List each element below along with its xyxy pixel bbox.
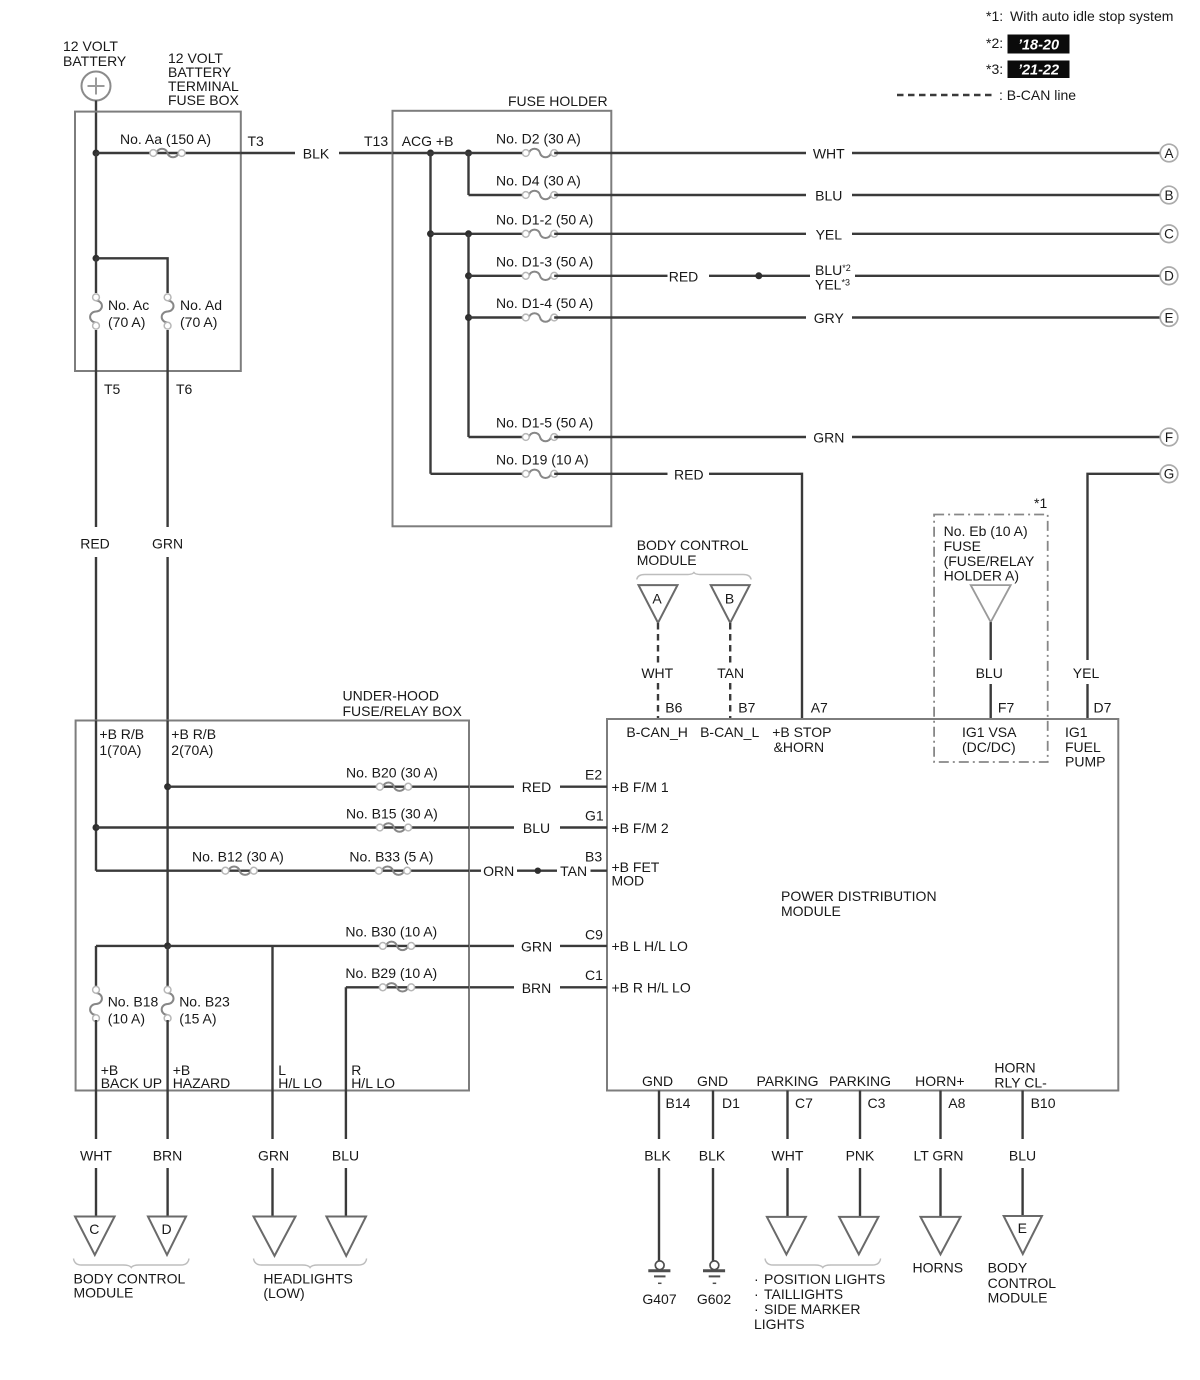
svg-text:PARKING: PARKING [757, 1073, 819, 1089]
wire fuse Ad to T6 [166, 330, 168, 371]
wire B18 to box edge [95, 1020, 97, 1091]
label BLU +B F/M 2 [523, 820, 550, 836]
wire D1-4 to GRY [554, 316, 1160, 318]
wire D1-5 to GRN [554, 436, 1160, 438]
svg-text:No. D1-5 (50 A): No. D1-5 (50 A) [496, 415, 593, 431]
label GRY circuit E [814, 310, 845, 326]
svg-text:D: D [161, 1221, 171, 1237]
svg-text:A: A [1164, 146, 1173, 161]
svg-text:+B F/M 1: +B F/M 1 [612, 779, 669, 795]
svg-text:No. B23: No. B23 [179, 994, 230, 1010]
label G602 [697, 1291, 731, 1307]
svg-text:E: E [1018, 1220, 1027, 1236]
power distribution module outline [607, 719, 1118, 1091]
svg-text:YEL: YEL [816, 227, 843, 243]
label +B FET MOD [612, 859, 660, 889]
svg-text:With auto idle stop system: With auto idle stop system [1010, 8, 1173, 24]
label GRN circuit F [813, 430, 844, 446]
label No. B30 (10 A) [345, 923, 437, 939]
wire R headlight [345, 1091, 347, 1217]
label B-CAN_L pin [700, 724, 759, 740]
label BLU IG1 VSA [976, 665, 1003, 681]
brace under parking [765, 1259, 881, 1268]
wire connector G to D7 [1088, 474, 1161, 719]
label +B F/M 1 [612, 779, 669, 795]
label ORN fet mod [483, 863, 514, 879]
svg-text:RED: RED [674, 467, 704, 483]
fuse B33 5A [375, 866, 410, 874]
label BRN hazard [153, 1147, 183, 1163]
svg-text:POSITION LIGHTS: POSITION LIGHTS [764, 1271, 885, 1287]
svg-text:RED: RED [669, 269, 699, 285]
label No. D1-3 (50 A) [496, 253, 593, 269]
wire D1 bus vertical C [467, 234, 469, 437]
svg-text:BATTERY: BATTERY [63, 53, 127, 69]
svg-text:SIDE MARKER: SIDE MARKER [764, 1301, 860, 1317]
svg-text:MODULE: MODULE [781, 903, 841, 919]
label No. D19 (10 A) [496, 451, 589, 467]
node ACG bus junction 1 [427, 150, 434, 157]
wire fuse Aa row [96, 152, 241, 154]
wire B20 to E2 pin [469, 786, 607, 788]
terminal T13 label [364, 133, 388, 149]
svg-text:+B R/B: +B R/B [99, 726, 144, 742]
wire hazard to D [166, 1091, 168, 1217]
svg-text:GND: GND [642, 1073, 673, 1089]
svg-text:No. D4 (30 A): No. D4 (30 A) [496, 173, 581, 189]
pin C3 label [868, 1095, 886, 1111]
wire L headlight drop [271, 946, 273, 1091]
label B-CAN_H pin [626, 724, 687, 740]
svg-text:B14: B14 [666, 1095, 691, 1111]
wire B29 to C1 pin [469, 986, 607, 988]
svg-text:No. Ac: No. Ac [108, 297, 149, 313]
wire RED to A7 [709, 474, 802, 719]
svg-text:No. D19 (10 A): No. D19 (10 A) [496, 451, 589, 467]
legend B-CAN line sample [897, 87, 1076, 103]
pin B14 label [666, 1095, 691, 1111]
node B15 junction [93, 824, 100, 831]
label No. D1-2 (50 A) [496, 211, 593, 227]
wire D1-2 branch [431, 233, 523, 235]
wire D1-5 branch [469, 436, 523, 438]
svg-text:HORN: HORN [994, 1060, 1035, 1076]
label R H/L LO [351, 1062, 395, 1091]
terminal T3 label [248, 133, 265, 149]
svg-text:TAILLIGHTS: TAILLIGHTS [764, 1286, 843, 1302]
svg-text:·: · [754, 1286, 759, 1302]
wire B15 to G1 pin [469, 826, 607, 828]
svg-text:BODY CONTROL: BODY CONTROL [637, 537, 749, 553]
node splice circuit D [755, 272, 762, 279]
svg-text:A8: A8 [948, 1095, 965, 1111]
label WHT parking [772, 1147, 804, 1163]
svg-text:(LOW): (LOW) [263, 1285, 304, 1301]
svg-text:PUMP: PUMP [1065, 754, 1105, 770]
svg-text:*1:: *1: [986, 8, 1003, 24]
svg-text:YEL: YEL [1073, 665, 1100, 681]
svg-text:No. Ad: No. Ad [180, 297, 222, 313]
svg-text:BLK: BLK [644, 1147, 671, 1163]
label HORN RLY CL- pin B10 [994, 1060, 1047, 1091]
svg-text:BLU: BLU [1009, 1147, 1036, 1163]
pin G1 label [585, 807, 604, 823]
brace under headlights [254, 1259, 367, 1268]
svg-text:WHT: WHT [813, 146, 845, 162]
svg-text:GND: GND [697, 1073, 728, 1089]
fuse D1-2 50A [522, 230, 557, 238]
label TAN fet mod [560, 863, 587, 879]
fuse D2 30A [522, 149, 557, 157]
wire ACG bus vertical B [467, 153, 469, 195]
wire back up to C [95, 1091, 97, 1217]
node D1-4 branch junction [465, 314, 472, 321]
svg-text:B-CAN_H: B-CAN_H [626, 724, 687, 740]
svg-text:F7: F7 [998, 700, 1015, 716]
pin A7 label [811, 700, 828, 716]
wire GND B14 [658, 1091, 660, 1262]
wire B15 row [96, 826, 469, 828]
node ACG bus junction 2 [465, 150, 472, 157]
ground symbol G407 [648, 1261, 670, 1283]
svg-text:BLK: BLK [699, 1147, 726, 1163]
svg-text:TAN: TAN [560, 863, 587, 879]
wire battery to fuse Ac [95, 258, 97, 293]
label WHT back up [80, 1147, 112, 1163]
svg-text:T5: T5 [104, 381, 121, 397]
label L H/L LO [278, 1062, 322, 1091]
wire D1-3 branch [469, 275, 523, 277]
svg-text:IG1: IG1 [1065, 724, 1088, 740]
svg-text:: B-CAN line: : B-CAN line [999, 87, 1076, 103]
label No. D1-4 (50 A) [496, 295, 593, 311]
label PARKING pin C7 [757, 1073, 819, 1089]
svg-text:HAZARD: HAZARD [173, 1075, 231, 1091]
connector G [1160, 465, 1178, 483]
svg-text:+B R/B: +B R/B [171, 726, 216, 742]
pin B10 label [1031, 1095, 1056, 1111]
wire B18 feed [96, 945, 168, 947]
label BLU R headlight [332, 1147, 359, 1163]
wire B33 to B3 pin [469, 870, 607, 872]
fuse B30 10A [379, 942, 414, 950]
pin C7 label [795, 1095, 813, 1111]
connector B [1160, 186, 1178, 204]
svg-text:No. D1-3 (50 A): No. D1-3 (50 A) [496, 253, 593, 269]
node D1-3 branch junction [465, 272, 472, 279]
label No. D2 (30 A) [496, 131, 581, 147]
fuse B18 10A [90, 986, 102, 1021]
label HORN+ pin A8 [915, 1073, 964, 1089]
legend note *1 with auto idle stop system [986, 8, 1173, 24]
svg-text:B: B [1164, 188, 1173, 203]
wire fuse Ac to T5 [95, 330, 97, 371]
svg-text:T6: T6 [176, 381, 193, 397]
svg-text:*3:: *3: [986, 61, 1003, 77]
svg-text:RLY CL-: RLY CL- [994, 1075, 1047, 1091]
label No. Aa (150 A) [120, 131, 211, 147]
svg-text:+B F/M 2: +B F/M 2 [612, 820, 669, 836]
connector triangle L headlight [254, 1217, 296, 1256]
svg-text:PNK: PNK [846, 1147, 875, 1163]
label TAN B-CAN_L [717, 665, 744, 681]
wire B30 to C9 pin [469, 945, 607, 947]
label No. B23 (15 A) [179, 994, 230, 1027]
svg-text:E: E [1164, 310, 1173, 325]
svg-text:MODULE: MODULE [988, 1290, 1048, 1306]
label No. B15 (30 A) [346, 806, 438, 822]
label YEL circuit C [816, 227, 843, 243]
battery positive terminal symbol [82, 72, 111, 101]
pin C9 label [585, 927, 603, 943]
svg-text:YEL*3: YEL*3 [815, 276, 850, 292]
fuse B15 30A [376, 823, 411, 831]
connector E [1160, 309, 1178, 327]
svg-text:·: · [754, 1301, 759, 1317]
svg-text:A: A [652, 591, 662, 607]
svg-text:BLU: BLU [332, 1147, 359, 1163]
label GRN left feed [152, 536, 183, 552]
svg-text:C3: C3 [868, 1095, 886, 1111]
svg-text:D1: D1 [722, 1095, 740, 1111]
svg-text:ACG +B: ACG +B [402, 133, 454, 149]
pin E2 label [585, 767, 602, 783]
connector F [1160, 428, 1178, 446]
node Ac Ad branch junction [93, 255, 100, 262]
svg-text:FUSE/RELAY BOX: FUSE/RELAY BOX [343, 703, 463, 719]
pin F7 label [998, 700, 1015, 716]
svg-text:LIGHTS: LIGHTS [754, 1316, 805, 1332]
ground symbol G602 [703, 1261, 725, 1283]
svg-text:(70 A): (70 A) [108, 314, 145, 330]
connector triangle R headlight [326, 1217, 366, 1256]
wire D1-3 to RED [554, 275, 667, 277]
terminal T5 label [104, 381, 121, 397]
label RED +B F/M 1 [522, 779, 552, 795]
svg-text:BRN: BRN [522, 980, 552, 996]
label BLU horn relay [1009, 1147, 1036, 1163]
label +B F/M 2 [612, 820, 669, 836]
svg-text:WHT: WHT [772, 1147, 804, 1163]
connector triangle D [148, 1217, 186, 1255]
svg-text:BLU: BLU [976, 665, 1003, 681]
node D1-2 row junction A [427, 230, 434, 237]
svg-text:·: · [754, 1271, 759, 1287]
connector triangle A BCM [639, 585, 678, 623]
svg-text:G1: G1 [585, 807, 604, 823]
svg-text:GRN: GRN [152, 536, 183, 552]
connector triangle C [75, 1217, 115, 1255]
svg-text:C7: C7 [795, 1095, 813, 1111]
svg-text:C: C [1164, 227, 1174, 242]
svg-text:GRN: GRN [258, 1147, 289, 1163]
svg-text:RED: RED [80, 536, 110, 552]
svg-text:*2:: *2: [986, 35, 1003, 51]
pin D7 label [1094, 700, 1112, 716]
label BLK battery feed [303, 146, 330, 162]
connector triangle parking 1 [767, 1217, 806, 1255]
svg-text:No. D1-4 (50 A): No. D1-4 (50 A) [496, 295, 593, 311]
svg-text:’18-20: ’18-20 [1018, 38, 1059, 54]
svg-text:LT GRN: LT GRN [913, 1147, 963, 1163]
connector D [1160, 267, 1178, 285]
fuse B23 15A [162, 986, 174, 1021]
label BLK ground 1 [644, 1147, 671, 1163]
svg-text:G602: G602 [697, 1291, 731, 1307]
wire B30 row [168, 945, 469, 947]
svg-text:ORN: ORN [483, 863, 514, 879]
label YEL fuel pump [1073, 665, 1100, 681]
wire D1-2 to YEL [554, 233, 1160, 235]
wire BLU to F7 pin [990, 684, 992, 719]
svg-text:PARKING: PARKING [829, 1073, 891, 1089]
label No. B18 (10 A) [108, 994, 159, 1027]
svg-text:No. B18: No. B18 [108, 994, 159, 1010]
label 12 VOLT BATTERY [63, 38, 127, 69]
terminal T6 label [176, 381, 193, 397]
svg-text:BACK UP: BACK UP [101, 1075, 162, 1091]
label +B R/B 1(70A) [99, 726, 144, 758]
under-hood fuse relay box outline [76, 721, 469, 1091]
svg-text:FUSE BOX: FUSE BOX [168, 92, 239, 108]
svg-text:T3: T3 [248, 133, 265, 149]
svg-text:D7: D7 [1094, 700, 1112, 716]
svg-text:MODULE: MODULE [74, 1285, 134, 1301]
svg-text:No. B15 (30 A): No. B15 (30 A) [346, 806, 438, 822]
node D1-2 row junction B [465, 230, 472, 237]
svg-text:H/L LO: H/L LO [351, 1075, 395, 1091]
label No. Eb (10 A) FUSE (FUSE/RELAY HOLDER A) [944, 523, 1035, 584]
svg-text:RED: RED [522, 779, 552, 795]
legend note *3 years 21-22 [986, 61, 1070, 79]
label BRN headlight R [522, 980, 552, 996]
svg-text:WHT: WHT [80, 1147, 112, 1163]
connector triangle B BCM [711, 585, 750, 623]
pin A8 label [948, 1095, 965, 1111]
label G407 [642, 1291, 676, 1307]
svg-text:No. B33 (5 A): No. B33 (5 A) [349, 849, 433, 865]
label No. B29 (10 A) [345, 965, 437, 981]
node splice ORN TAN [535, 868, 541, 874]
label +B STOP &HORN pin [772, 724, 831, 755]
svg-text:No. Eb (10 A): No. Eb (10 A) [944, 523, 1028, 539]
svg-text:C9: C9 [585, 927, 603, 943]
wire branch to fuse Ad [96, 258, 168, 293]
wire horn relay B10 [1021, 1091, 1023, 1217]
legend note *2 years 18-20 [986, 35, 1070, 54]
label HORNS [913, 1260, 964, 1276]
battery terminal fuse box outline [75, 112, 241, 371]
label *1 marker [1034, 495, 1047, 511]
fuse Ad 70A [162, 294, 174, 329]
wire B23 to box edge [166, 1020, 168, 1091]
svg-text:GRN: GRN [813, 430, 844, 446]
wire D4 to BLU [554, 194, 1160, 196]
svg-text:T13: T13 [364, 133, 388, 149]
fuse D1-4 50A [522, 313, 557, 321]
label FUSE HOLDER [508, 93, 608, 109]
svg-text:HORN+: HORN+ [915, 1073, 964, 1089]
wire T6 down GRN [166, 371, 168, 721]
wire B12 B33 row [96, 870, 469, 872]
brace under BCM bottom [74, 1259, 190, 1268]
fuse B12 30A [222, 866, 257, 874]
label No. Ad (70 A) [180, 297, 222, 330]
svg-text:HOLDER A): HOLDER A) [944, 568, 1019, 584]
label WHT B-CAN_H [641, 665, 673, 681]
svg-text:E2: E2 [585, 767, 602, 783]
label No. D1-5 (50 A) [496, 415, 593, 431]
svg-text:FUSE HOLDER: FUSE HOLDER [508, 93, 608, 109]
wire battery bus down [95, 153, 97, 258]
fuse D1-3 50A [522, 272, 557, 280]
fuse D1-5 50A [522, 433, 557, 441]
svg-text:No. B29 (10 A): No. B29 (10 A) [345, 965, 437, 981]
label RED stop horn feed [674, 467, 704, 483]
svg-text:1(70A): 1(70A) [99, 742, 141, 758]
label +B BACK UP [101, 1062, 162, 1091]
wire parking C3 [859, 1091, 861, 1217]
label PNK parking [846, 1147, 875, 1163]
node battery junction at fuse Aa [93, 150, 100, 157]
auto idle stop dash-dot box [934, 515, 1048, 763]
svg-text:WHT: WHT [641, 665, 673, 681]
wire T5 down RED [95, 371, 97, 721]
wire to fuse B18 [95, 946, 97, 988]
label GND pin D1 [697, 1073, 728, 1089]
label WHT circuit A [813, 146, 845, 162]
svg-text:G407: G407 [642, 1291, 676, 1307]
label No. B12 (30 A) [192, 849, 284, 865]
svg-text:B-CAN_L: B-CAN_L [700, 724, 759, 740]
svg-text:+B R H/L LO: +B R H/L LO [612, 980, 691, 996]
label BODY CONTROL MODULE bottom left [74, 1270, 186, 1300]
fuse Aa 150A [150, 149, 185, 157]
svg-text:BLU: BLU [815, 188, 842, 204]
connector triangle fuse Eb [971, 585, 1011, 622]
label +B HAZARD [173, 1062, 231, 1091]
wire D4 branch [469, 194, 523, 196]
svg-text:’21-22: ’21-22 [1018, 63, 1059, 79]
svg-text:+B L H/L LO: +B L H/L LO [612, 938, 689, 954]
wire GND D1 [712, 1091, 714, 1262]
wire D19 branch [431, 473, 523, 475]
svg-text:No. B20 (30 A): No. B20 (30 A) [346, 765, 438, 781]
node B20 junction [164, 783, 171, 790]
label IG1 FUEL PUMP pin [1065, 724, 1105, 770]
label +B R H/L LO [612, 980, 691, 996]
wire RED bus in box [95, 721, 97, 871]
svg-text:B10: B10 [1031, 1095, 1056, 1111]
node B30 junction [164, 942, 171, 949]
svg-text:POWER DISTRIBUTION: POWER DISTRIBUTION [781, 888, 937, 904]
wire D2 to WHT [393, 152, 1161, 154]
svg-text:2(70A): 2(70A) [171, 742, 213, 758]
pin C1 label [585, 967, 603, 983]
svg-text:(15 A): (15 A) [179, 1011, 216, 1027]
label No. Ac (70 A) [108, 297, 149, 330]
wire battery to fuse box [95, 101, 97, 154]
svg-text:C: C [89, 1221, 99, 1237]
svg-text:MOD: MOD [612, 873, 645, 889]
label GND pin B14 [642, 1073, 673, 1089]
label No. B20 (30 A) [346, 765, 438, 781]
wire L headlight [271, 1091, 273, 1217]
connector triangle parking 2 [839, 1217, 878, 1255]
wire B-CAN_L dashed [729, 623, 731, 719]
svg-text:No. Aa (150 A): No. Aa (150 A) [120, 131, 211, 147]
wire parking C7 [786, 1091, 788, 1217]
